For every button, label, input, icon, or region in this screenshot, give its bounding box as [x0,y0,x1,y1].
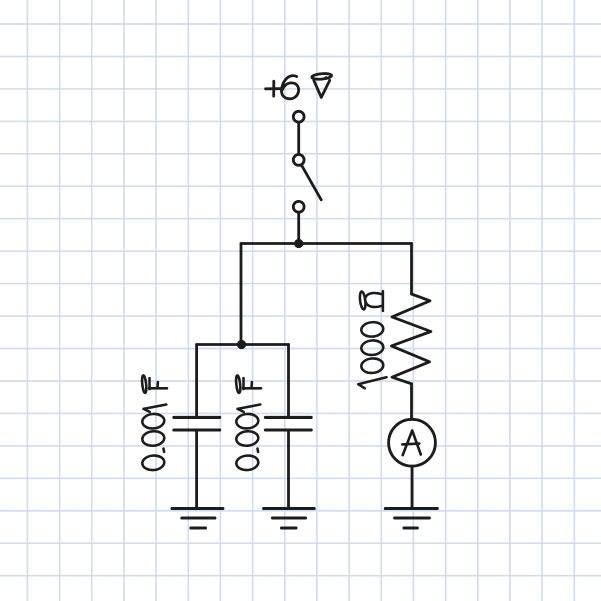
capacitor C1 [174,345,220,508]
ammeter A1 [389,419,436,466]
label +6 V [266,73,332,99]
wire left drop [240,244,243,345]
wire resistor to ammeter [410,384,413,420]
ground C1 [172,509,223,529]
ground ammeter [385,509,437,529]
label 1000 Ω [358,291,386,388]
ground C2 [264,509,315,529]
node junction top [294,239,303,248]
wire capacitor bus [197,343,289,346]
wire ammeter to ground [411,466,414,508]
capacitor C2 [265,345,311,508]
label 0.001 F (C1) [141,375,167,471]
wire top bus [241,242,412,245]
switch SW1 [293,111,321,212]
wire switch to node [297,212,300,243]
node junction capacitors [237,340,246,349]
resistor R1 [391,294,431,384]
label 0.001 F (C2) [235,375,261,471]
wire right drop [410,244,413,295]
